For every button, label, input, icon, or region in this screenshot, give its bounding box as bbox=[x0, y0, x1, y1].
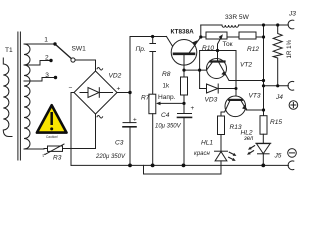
svg-text:−: − bbox=[69, 85, 73, 92]
svg-text:+: + bbox=[133, 117, 137, 124]
svg-text:2: 2 bbox=[45, 55, 49, 62]
svg-text:VD3: VD3 bbox=[205, 97, 218, 104]
svg-text:VD2: VD2 bbox=[109, 73, 122, 80]
svg-text:R8: R8 bbox=[162, 71, 171, 78]
svg-text:+: + bbox=[117, 86, 121, 93]
svg-text:J3: J3 bbox=[288, 11, 296, 18]
svg-text:R15: R15 bbox=[270, 119, 282, 126]
svg-text:C4: C4 bbox=[161, 112, 170, 119]
svg-text:HL1: HL1 bbox=[201, 140, 213, 147]
svg-text:220μ 350V: 220μ 350V bbox=[95, 154, 126, 160]
svg-text:1: 1 bbox=[44, 37, 48, 44]
svg-text:J5: J5 bbox=[274, 153, 282, 160]
svg-text:R10: R10 bbox=[202, 45, 214, 52]
svg-text:T1: T1 bbox=[5, 47, 13, 54]
svg-text:33R 5W: 33R 5W bbox=[225, 14, 250, 21]
svg-text:R12: R12 bbox=[247, 46, 259, 53]
svg-text:1R 1%: 1R 1% bbox=[286, 39, 293, 58]
svg-text:зел: зел bbox=[243, 136, 254, 142]
svg-text:R7: R7 bbox=[141, 95, 150, 102]
svg-text:3: 3 bbox=[45, 72, 49, 79]
svg-text:J4: J4 bbox=[275, 94, 283, 101]
svg-text:C3: C3 bbox=[115, 140, 124, 147]
svg-text:+: + bbox=[191, 105, 195, 112]
svg-text:Ток: Ток bbox=[223, 41, 233, 48]
svg-text:Caution!: Caution! bbox=[46, 135, 58, 139]
svg-text:1k: 1k bbox=[163, 83, 170, 90]
svg-text:Напр.: Напр. bbox=[158, 94, 176, 101]
svg-text:t°: t° bbox=[43, 153, 46, 158]
svg-text:R3: R3 bbox=[53, 155, 62, 162]
svg-text:VT3: VT3 bbox=[249, 93, 261, 100]
svg-text:Пр.: Пр. bbox=[136, 46, 146, 53]
svg-text:красн: красн bbox=[194, 151, 211, 157]
svg-text:VT2: VT2 bbox=[240, 62, 252, 69]
svg-text:SW1: SW1 bbox=[72, 46, 87, 53]
svg-text:10μ 350V: 10μ 350V bbox=[155, 124, 182, 130]
svg-text:КТ838А: КТ838А bbox=[171, 29, 195, 36]
